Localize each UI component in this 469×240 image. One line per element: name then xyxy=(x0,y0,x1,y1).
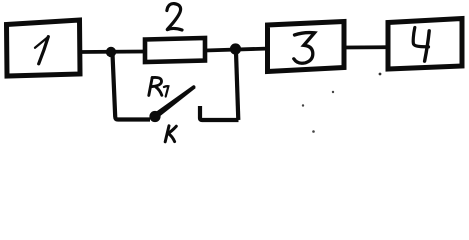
switch blade K xyxy=(154,85,195,118)
scan speckles xyxy=(332,91,334,93)
label 2 xyxy=(167,4,182,30)
resistor R (block 2 body) xyxy=(145,38,205,62)
wire block3 to block4 xyxy=(344,45,389,49)
wire block1 to resistor xyxy=(80,50,146,54)
switch pivot node xyxy=(149,111,160,122)
block 4 xyxy=(388,19,462,70)
label 4 xyxy=(413,28,429,62)
node right junction xyxy=(230,43,241,54)
node left junction xyxy=(106,47,116,57)
switch right terminal bracket xyxy=(200,106,239,120)
wire left branch down xyxy=(113,54,151,120)
block 3 xyxy=(268,22,345,72)
label 3 xyxy=(294,33,315,64)
label 1 xyxy=(35,37,48,64)
wire resistor to block3 xyxy=(205,49,270,51)
label R1 xyxy=(149,77,169,96)
label K xyxy=(165,126,176,142)
block 1 xyxy=(7,20,81,76)
wire right branch down xyxy=(236,52,238,120)
